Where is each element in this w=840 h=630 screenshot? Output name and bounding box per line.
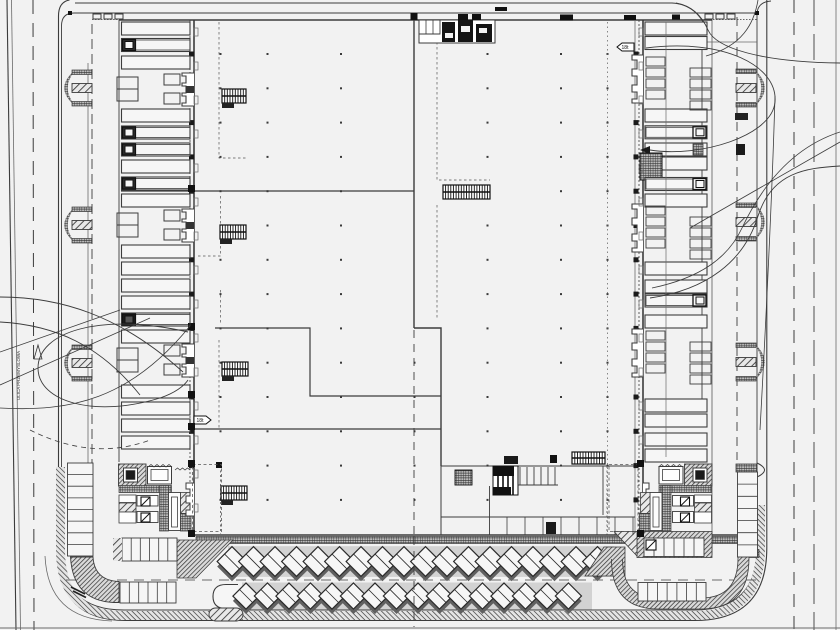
southwest stalls row 2 bbox=[120, 582, 176, 603]
stair core W1 flag bbox=[222, 103, 234, 108]
sw castle room wavy top bbox=[148, 465, 172, 468]
central spine wall x414 bbox=[413, 20, 415, 328]
east hall edge line bbox=[634, 20, 636, 536]
chevron row1 left hatch wedge bbox=[177, 540, 233, 578]
west dock approach line 2 bbox=[130, 325, 190, 327]
west parking stall column bbox=[68, 463, 94, 556]
southwest corner hatch wedge bbox=[71, 557, 120, 603]
south office comb detail bbox=[518, 467, 558, 485]
east hall dotted column line bbox=[607, 22, 609, 534]
west dashed curve bbox=[30, 430, 150, 449]
east apron lane line a bbox=[701, 42, 703, 412]
north road inner line bbox=[74, 12, 757, 14]
mezzanine dashed line west B bbox=[197, 196, 221, 324]
wall junction tick 640,533 bbox=[637, 530, 644, 537]
road chevron tick marks bbox=[71, 587, 86, 598]
office strip wall y466 bbox=[441, 465, 635, 467]
stair core C1 bbox=[443, 185, 490, 199]
northeast corner arc bbox=[757, 1, 771, 14]
west site boundary line outer bbox=[7, 0, 16, 630]
west sidewalk line a bbox=[87, 63, 89, 505]
spine top black tick bbox=[411, 13, 418, 20]
east road crossing mark 1 bbox=[693, 144, 703, 155]
west site boundary line inner bbox=[12, 0, 21, 630]
west dock trailer bays and trucks bbox=[122, 22, 191, 449]
south outer road arc west bbox=[45, 556, 112, 621]
east apron top line bbox=[666, 41, 757, 43]
top wall door mark 3 bbox=[672, 15, 680, 20]
service lane dashed vertical bbox=[413, 536, 415, 627]
west apron edge line bbox=[118, 20, 120, 462]
column dotted line SW hall bbox=[220, 466, 222, 534]
stair core W1b bbox=[220, 225, 246, 239]
southwest canopy dashed outline bbox=[193, 465, 222, 532]
node dot east bbox=[755, 11, 759, 15]
truck route marker west bbox=[194, 416, 211, 424]
east loop arrow tip bbox=[640, 146, 650, 154]
west dock pocket zone 2 bbox=[117, 209, 194, 242]
interior wall y191 bbox=[121, 190, 414, 192]
north road outer line bbox=[75, 3, 707, 29]
building west dock wall bbox=[193, 20, 195, 536]
top wall door mark 2 bbox=[624, 15, 636, 20]
east road lane line 2 (long dash) bbox=[813, 0, 815, 630]
guardrail tick W2 bbox=[104, 14, 112, 19]
chevron parking row 2 bbox=[233, 583, 592, 615]
east parking edge (dashed) bbox=[736, 17, 738, 460]
west entry diagonal 1 bbox=[0, 310, 120, 352]
west dock pocket zone 1 bbox=[117, 73, 194, 106]
interior wall y429 bbox=[121, 428, 441, 430]
office black mark bbox=[550, 455, 557, 463]
southeast curb U-band edge b bbox=[623, 536, 739, 598]
top road tick mark bbox=[495, 7, 507, 11]
east road black bar bbox=[735, 113, 748, 120]
east wall door ticks bbox=[639, 28, 643, 444]
wall junction tick 191,463 bbox=[188, 460, 195, 467]
spine dashed column line bbox=[413, 330, 415, 534]
east dock pocket zone 1 bbox=[632, 55, 711, 110]
east road arch court 3 bbox=[736, 343, 765, 381]
wall junction tick 191,394 bbox=[188, 391, 195, 398]
wall junction tick 640,463 bbox=[637, 460, 644, 467]
stair core W3 bbox=[221, 486, 247, 500]
office partition x603 bbox=[602, 466, 604, 515]
ring road curb hatch band bbox=[61, 467, 761, 616]
east road crossing mark 2 bbox=[736, 144, 745, 155]
south office dotted partition bbox=[606, 466, 608, 535]
guardrail dotted line west bbox=[92, 19, 124, 21]
wall junction tick 191,533 bbox=[188, 530, 195, 537]
guardrail tick E1 bbox=[705, 14, 713, 19]
east dock pocket zone 2 bbox=[632, 204, 711, 259]
bottom median curb bulb bbox=[209, 608, 243, 621]
west wall door ticks bbox=[194, 28, 198, 512]
southeast entrance complex bbox=[640, 464, 713, 531]
guardrail tick W1 bbox=[93, 14, 101, 19]
west entry curve 2 bbox=[0, 322, 140, 395]
stair core W1 bbox=[222, 89, 246, 103]
chevron row1 right hatch wedge bbox=[585, 547, 625, 576]
west road centerline (dashed) bbox=[33, 0, 34, 630]
column line tick SW bbox=[216, 462, 222, 468]
west truck court arch 1 bbox=[64, 70, 92, 106]
east entry curve top 2 bbox=[706, 0, 758, 56]
stair core W1b flag bbox=[220, 239, 232, 244]
east curve down road bbox=[760, 96, 775, 430]
stair core W2 flag bbox=[222, 376, 234, 381]
guardrail tick E3 bbox=[727, 14, 735, 19]
east entry diagonal bbox=[690, 142, 840, 228]
east road arch court 2 bbox=[736, 203, 765, 241]
sw canopy wavy mark bbox=[175, 468, 190, 470]
southeast stalls row 2 bbox=[638, 583, 706, 602]
west truck court arch 1b bbox=[64, 207, 92, 243]
mezzanine dashed line west C bbox=[218, 340, 220, 428]
east entry sweep 3 bbox=[652, 132, 840, 288]
lane dashed line between chevron rows bbox=[66, 579, 758, 581]
top washroom block bbox=[419, 14, 495, 43]
east road arch court 4 (cap) bbox=[736, 463, 765, 477]
southwest entrance complex bbox=[119, 464, 192, 531]
stair core W2 bbox=[222, 362, 248, 376]
spine jog wall bbox=[414, 328, 441, 466]
building east dock wall bbox=[642, 20, 644, 536]
east entry curve top bbox=[676, 3, 840, 63]
building top wall bbox=[119, 19, 712, 21]
east road lane line (dashed) bbox=[793, 0, 795, 630]
chevron parking row 1 bbox=[217, 546, 614, 581]
east road arch court 1 bbox=[736, 69, 765, 107]
mezzanine dashed line east A bbox=[437, 22, 490, 180]
south boundary line bbox=[0, 627, 840, 629]
dock wall column ticks bbox=[189, 52, 639, 503]
west entry guide to dock bbox=[0, 313, 190, 409]
guardrail tick E2 bbox=[716, 14, 724, 19]
office dark streak bbox=[504, 456, 518, 464]
west dock face dotted line bbox=[189, 20, 191, 536]
node dot west bbox=[68, 11, 72, 15]
west dock pocket zone 3 bbox=[117, 344, 194, 377]
east apron lane line b bbox=[711, 20, 713, 555]
east dock pocket zone 3 bbox=[632, 329, 711, 384]
wall junction tick 191,426 bbox=[188, 423, 195, 430]
east dock trailer bays and trucks bbox=[640, 22, 707, 462]
mezzanine dashed line east B bbox=[436, 205, 438, 320]
office partition x489 bbox=[489, 486, 491, 535]
guardrail tick W3 bbox=[115, 14, 123, 19]
east dock pocket zone 4 (partial) bbox=[643, 483, 649, 516]
southeast curb U-band edge a bbox=[612, 536, 750, 609]
east entry big loop bbox=[646, 46, 775, 152]
east boundary line bbox=[835, 0, 837, 630]
mezzanine dashed line west A bbox=[219, 22, 247, 158]
guardrail dotted line east bbox=[704, 19, 757, 21]
building south wall bbox=[194, 534, 757, 536]
west entry diagonal 2 bbox=[0, 318, 150, 385]
east entry sweep 2 bbox=[650, 166, 840, 298]
south sidewalk hatched band bbox=[196, 537, 755, 544]
se castle room wavy top bbox=[659, 465, 683, 468]
east parking foot hatch bbox=[738, 550, 759, 558]
stair core S1 bbox=[572, 452, 605, 464]
west entry curve 1 bbox=[0, 297, 183, 372]
south office room row bbox=[441, 517, 635, 535]
chevron row 2 cap bulb bbox=[213, 585, 238, 609]
truck route marker east bbox=[617, 43, 634, 51]
west truck court arch 2 bbox=[64, 345, 92, 381]
top wall door mark bbox=[560, 15, 573, 21]
southeast canopy dashed outline bbox=[609, 465, 638, 532]
stair core W3 flag bbox=[221, 500, 233, 505]
southeast stalls row 1 bbox=[614, 532, 712, 558]
wall junction tick 191,188 bbox=[188, 185, 195, 192]
column grid dots bbox=[220, 53, 609, 501]
office comb block bbox=[493, 466, 518, 495]
west dock pocket zone 4 (partial) bbox=[186, 483, 194, 516]
west dock approach line 1 bbox=[130, 312, 190, 314]
wall junction tick 191,326 bbox=[188, 323, 195, 330]
svg-text:18t: 18t bbox=[622, 45, 630, 51]
svg-text:ULICA PRZEMYSLOWA: ULICA PRZEMYSLOWA bbox=[16, 351, 21, 400]
road arrow marker bbox=[34, 345, 42, 359]
east parking stall column bbox=[738, 472, 758, 557]
southwest stalls row 1 bbox=[113, 538, 177, 561]
svg-text:18t: 18t bbox=[197, 418, 205, 424]
east apron bay edge line bbox=[665, 22, 667, 457]
west sidewalk line b bbox=[91, 24, 93, 505]
hall wall step bbox=[215, 328, 441, 396]
south office stair hatch bbox=[455, 470, 472, 485]
west entry loop bbox=[38, 324, 188, 407]
office partition x441 bbox=[440, 466, 442, 535]
ring road inner curb line bbox=[62, 13, 758, 610]
southeast curb U-band bbox=[617, 536, 744, 604]
south office dark room 2 bbox=[546, 522, 556, 534]
east dock face dotted line bbox=[638, 20, 640, 536]
